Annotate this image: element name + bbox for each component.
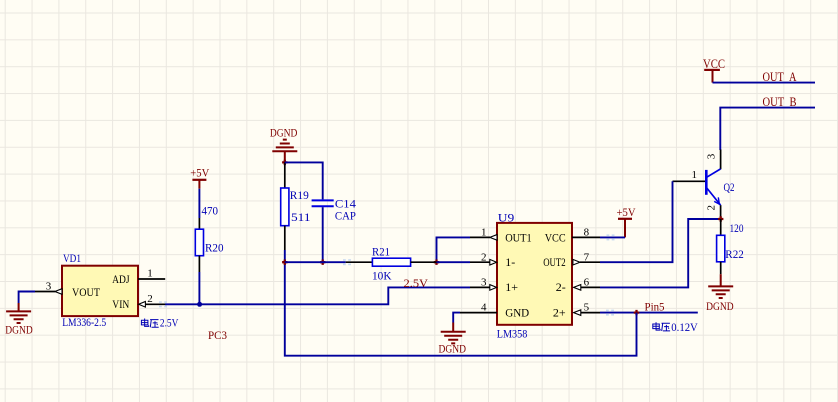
node R19 bus junction: [282, 260, 287, 265]
svg-text:2-: 2-: [556, 280, 566, 294]
wire C14 bottom to bus: [322, 207, 324, 262]
svg-text:511: 511: [291, 212, 311, 224]
power +5V (at U9 pin 8): [617, 205, 636, 237]
pin 1 OUT1: [470, 227, 497, 241]
svg-text:R20: R20: [205, 242, 224, 254]
label voltage 2.5V: [141, 318, 179, 330]
svg-text:1: 1: [147, 267, 153, 279]
wire pin 5 net Pin5: [600, 312, 698, 314]
wire emitter to pin 6: [600, 219, 721, 287]
pin 3 VOUT: [35, 280, 62, 294]
ground DGND (left of VD1): [5, 303, 33, 336]
svg-text:6: 6: [584, 276, 590, 288]
op-amp U9: [497, 213, 572, 341]
svg-text:R19: R19: [290, 190, 309, 202]
svg-text:2.5V: 2.5V: [160, 318, 179, 330]
svg-text:7: 7: [584, 252, 590, 264]
emitter pin 2: [720, 205, 722, 219]
svg-text:ADJ: ADJ: [112, 272, 130, 286]
pin 2 VIN: [139, 293, 166, 307]
grip marks: [159, 234, 615, 315]
transistor symbol body: [706, 169, 720, 205]
wire R21 to pin 2: [437, 261, 471, 263]
resistor R21: [346, 246, 437, 282]
power +5V (above R20): [190, 166, 209, 189]
svg-text:LM336-2.5: LM336-2.5: [62, 317, 106, 329]
svg-text:10K: 10K: [372, 271, 392, 283]
svg-text:3: 3: [706, 153, 718, 159]
svg-text:C14: C14: [335, 198, 356, 210]
svg-text:R21: R21: [372, 246, 390, 258]
ground DGND (U9 pin 4): [439, 313, 467, 356]
pin 7 OUT2: [573, 252, 600, 266]
svg-text:PC3: PC3: [208, 328, 227, 342]
svg-text:OUT2: OUT2: [543, 255, 566, 269]
svg-text:Q2: Q2: [724, 182, 735, 194]
collector pin 3: [720, 150, 722, 170]
wire: [720, 108, 815, 150]
svg-text:1: 1: [692, 169, 698, 181]
svg-text:5: 5: [584, 302, 590, 314]
net OUT_A: [713, 70, 816, 84]
pin 1 ADJ: [138, 267, 165, 279]
wire: [713, 82, 816, 84]
svg-text:0.12V: 0.12V: [671, 322, 698, 334]
wire R20 bottom to 2.5V net: [198, 272, 200, 304]
svg-text:+5V: +5V: [617, 205, 636, 219]
power VCC: [703, 57, 725, 83]
svg-text:8: 8: [584, 227, 590, 239]
svg-text:VIN: VIN: [112, 297, 129, 311]
voltage reference VD1: [62, 253, 138, 329]
wire pin 8 to +5V: [600, 236, 625, 238]
pin 4 GND: [460, 302, 497, 314]
svg-text:CAP: CAP: [335, 211, 356, 223]
svg-text:DGND: DGND: [706, 299, 734, 313]
svg-text:120: 120: [730, 223, 744, 235]
wire 2.5V net (VD1 pin2 to U9 pin3): [165, 287, 470, 304]
svg-text:LM358: LM358: [497, 329, 528, 341]
svg-text:2: 2: [481, 252, 487, 264]
svg-text:1-: 1-: [505, 255, 515, 269]
svg-text:1: 1: [481, 227, 487, 239]
svg-text:VOUT: VOUT: [72, 285, 101, 299]
pin 8 VCC: [572, 227, 600, 239]
node Pin5 junction: [634, 310, 639, 315]
MAIN4: [5, 253, 179, 337]
svg-text:2: 2: [147, 293, 153, 305]
wire R19 bottom to bus: [284, 250, 286, 262]
pin 3 1+: [470, 276, 497, 290]
ground DGND (under R22): [706, 274, 734, 313]
resistor R22: [717, 219, 744, 274]
node C14 bus junction: [320, 260, 325, 265]
svg-text:DGND: DGND: [439, 342, 467, 356]
wire top junction to C14: [285, 162, 323, 199]
svg-text:4: 4: [481, 302, 487, 314]
svg-text:470: 470: [202, 205, 219, 217]
svg-text:1+: 1+: [505, 280, 518, 294]
node feedback junction: [434, 260, 439, 265]
net OUT_B: [720, 95, 815, 150]
resistor R20: [195, 189, 223, 272]
svg-text:VD1: VD1: [63, 253, 81, 265]
svg-text:GND: GND: [505, 305, 529, 319]
pin 6 2-: [574, 276, 600, 290]
pin 5 2+: [574, 302, 600, 316]
node R20 junction: [197, 302, 202, 307]
svg-text:2+: 2+: [553, 305, 566, 319]
MAIN3: [165, 125, 470, 342]
svg-text:3: 3: [481, 276, 487, 288]
MAIN2: [285, 205, 699, 356]
node R19/C14 top junction: [282, 160, 287, 165]
pin 2 1-: [470, 252, 497, 266]
base pin 1: [673, 180, 706, 182]
wire OUT1 feedback to 1- bus: [437, 237, 471, 262]
label voltage 0.12V: [653, 322, 699, 334]
ground DGND (top, above R19): [270, 125, 298, 162]
svg-text:Pin5: Pin5: [645, 302, 665, 314]
svg-text:+5V: +5V: [190, 166, 209, 180]
transistor Q2: [673, 150, 735, 219]
svg-text:2.5V: 2.5V: [404, 276, 429, 290]
svg-text:2: 2: [706, 205, 718, 211]
node emitter junction: [718, 216, 723, 221]
capacitor C14: [312, 198, 357, 222]
resistor R19: [281, 162, 311, 250]
wire pin 3 to ground: [19, 292, 35, 304]
svg-text:DGND: DGND: [5, 322, 33, 336]
svg-text:OUT1: OUT1: [505, 231, 532, 245]
wire base of Q2 to OUT2: [600, 181, 673, 262]
svg-text:3: 3: [46, 280, 52, 292]
svg-text:DGND: DGND: [270, 125, 298, 139]
svg-text:R22: R22: [725, 249, 744, 261]
wire bus to R21: [285, 261, 346, 263]
svg-text:VCC: VCC: [545, 231, 566, 245]
wire bottom bus to Pin5: [285, 262, 637, 356]
